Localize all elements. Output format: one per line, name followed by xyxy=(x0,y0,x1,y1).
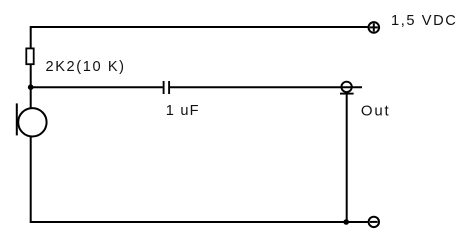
wire mic bottom along bottom rail to minus terminal xyxy=(31,137,368,222)
svg-text:1 uF: 1 uF xyxy=(166,103,200,119)
wire top rail from V+ terminal to left corner down to resistor xyxy=(31,27,368,48)
wire node A to capacitor left plate xyxy=(31,86,163,88)
svg-text:2K2(10 K): 2K2(10 K) xyxy=(46,59,126,75)
resistor R1 xyxy=(26,48,33,64)
battery plus terminal xyxy=(369,22,380,33)
wire resistor bottom to node A xyxy=(30,64,32,87)
node B junction dot xyxy=(343,219,349,225)
svg-text:Out: Out xyxy=(361,103,391,120)
capacitor C1 xyxy=(164,81,170,94)
battery minus terminal xyxy=(369,217,379,227)
wire capacitor right plate through Out terminal xyxy=(170,86,362,88)
microphone MIC1 xyxy=(17,87,47,136)
wire Out terminal down to node B xyxy=(346,94,348,222)
Out terminal connector xyxy=(340,82,354,94)
svg-text:1,5 VDC: 1,5 VDC xyxy=(391,13,457,29)
node A junction dot xyxy=(28,84,34,90)
